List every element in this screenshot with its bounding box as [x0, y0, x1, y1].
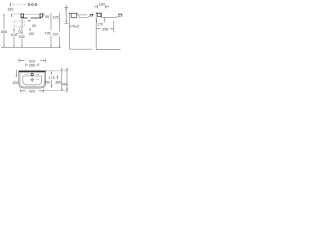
left side view bowl section [78, 15, 91, 18]
plan dim 440 arrowheads [66, 68, 68, 70]
left side view vertical dim line [64, 5, 68, 24]
svg-text:720: 720 [53, 33, 59, 37]
tap hole circle 2 [32, 4, 34, 6]
dim 180 arrows [95, 5, 110, 9]
hidden siphon dashed box [14, 21, 25, 27]
plan top edge extension right [46, 70, 69, 72]
svg-text:320: 320 [12, 81, 18, 85]
svg-text:95: 95 [45, 15, 49, 19]
drain circle front view [19, 30, 21, 32]
right side ticks above 170 label [97, 18, 105, 23]
dim 720 line [59, 13, 61, 47]
svg-text:850: 850 [1, 30, 7, 34]
right side view tip notch [118, 16, 120, 18]
plan dim 170 line [51, 71, 53, 74]
left side view tip notch [90, 15, 92, 17]
svg-text:ø: ø [29, 27, 31, 31]
dim 850 line [3, 15, 5, 47]
plan basin outer outline [19, 71, 46, 88]
svg-text:150: 150 [28, 32, 34, 36]
dim 530 arrow top [21, 32, 22, 34]
tap hole circle 1 [28, 4, 30, 6]
plan tap centerline dashes [25, 74, 39, 76]
right side view top rim dark [96, 12, 101, 14]
plan left dim 320 [15, 70, 17, 76]
drain centerline dash [16, 33, 19, 35]
drain stem [19, 27, 21, 30]
plan dim 250 arrowhead [51, 85, 53, 87]
fixing hole right [40, 14, 42, 17]
left side view top rim line [69, 12, 78, 14]
svg-text:440: 440 [62, 83, 68, 87]
dim 530 arrow bottom [21, 46, 22, 48]
svg-text:250: 250 [44, 80, 50, 84]
svg-text:280: 280 [29, 64, 35, 68]
svg-text:380: 380 [55, 81, 61, 85]
svg-text:180: 180 [99, 2, 105, 6]
plan basin top edge thick [19, 70, 46, 72]
right side view front tip [118, 14, 122, 17]
dim 720 arrow bottom [59, 46, 61, 48]
svg-text:170: 170 [97, 22, 103, 26]
hidden line dash [28, 20, 31, 22]
plan dim 420 arrowheads [21, 90, 23, 91]
svg-text:610: 610 [11, 33, 17, 37]
plan dim 250 line [51, 80, 53, 88]
plan dim 380 line [61, 68, 63, 91]
svg-text:358: 358 [102, 27, 108, 31]
plan dim 380 arrowheads [61, 69, 63, 71]
front view top rim line [3, 13, 45, 15]
plan dim 170 arrowhead [51, 73, 53, 75]
left side view bracket box [71, 14, 76, 18]
plan drain circle [31, 79, 33, 81]
left side view floor line [69, 48, 92, 50]
plan left dim 320 arrowhead [16, 75, 18, 77]
dim 358 arrows [97, 21, 114, 33]
dim 735 line [50, 13, 52, 47]
svg-text:530: 530 [19, 35, 25, 39]
right side view step down [101, 13, 103, 17]
plan extension tick bottom right [44, 90, 68, 92]
plan dim 440 line [66, 68, 68, 93]
left side view front tip [90, 14, 93, 16]
tick x11.5 [11, 14, 13, 17]
plan basin inner rim [20, 73, 44, 87]
left side view bracket tail [73, 18, 75, 19]
svg-text:735: 735 [44, 32, 50, 36]
right side view underside line [101, 15, 119, 18]
dim 180 arrowhead left [96, 6, 98, 7]
right side view bracket box [98, 14, 101, 17]
left side dim arrow top [65, 8, 67, 10]
plan drain cross [30, 77, 39, 82]
plan dim 380 aux arrow [56, 76, 58, 80]
plan dim 520 [19, 59, 45, 63]
front view rim band top line [24, 13, 41, 15]
svg-text:125: 125 [52, 16, 58, 20]
svg-text:35: 35 [32, 24, 36, 28]
left side view wall line [68, 13, 70, 50]
right side view wall line [95, 13, 97, 50]
dim 610 arrow top [13, 28, 14, 30]
svg-text:170±5: 170±5 [69, 25, 79, 29]
plan dim 280 [26, 63, 39, 66]
left side dim arrow bottom [65, 21, 67, 23]
dim 95 tick left [43, 13, 45, 17]
right side view floor line [96, 49, 120, 51]
plan bowl [23, 76, 42, 85]
dim 610 line [13, 29, 15, 47]
dim 530 line [21, 19, 23, 47]
tap hole circle 3 [35, 4, 37, 6]
plan dim 280 arrowheads [26, 64, 28, 65]
svg-text:170: 170 [49, 76, 55, 80]
dim 150 arrowhead [10, 5, 11, 7]
dim 850 arrow top [3, 14, 4, 16]
dim 850 arrow bottom [3, 46, 4, 48]
floor line front view [1, 47, 61, 49]
plan tap hole [31, 73, 33, 75]
plan dim 520 arrowheads [19, 60, 21, 61]
svg-text:420: 420 [29, 90, 35, 94]
plan dim 420 [21, 89, 44, 93]
dim 358 arrowhead left [97, 28, 99, 29]
fixing hole left [21, 14, 23, 17]
front view rim band bottom line [21, 17, 41, 19]
dim 735 arrow bottom [50, 46, 51, 48]
tap hole centerline dashed [13, 4, 27, 6]
plan fixing ticks [26, 69, 39, 72]
dim 180 arrowhead right [106, 6, 108, 7]
svg-text:150: 150 [7, 8, 13, 12]
dim 610 arrow bottom [13, 46, 14, 48]
dim 358 arrowhead right [112, 28, 114, 29]
dim 150 extension tick [10, 3, 12, 6]
